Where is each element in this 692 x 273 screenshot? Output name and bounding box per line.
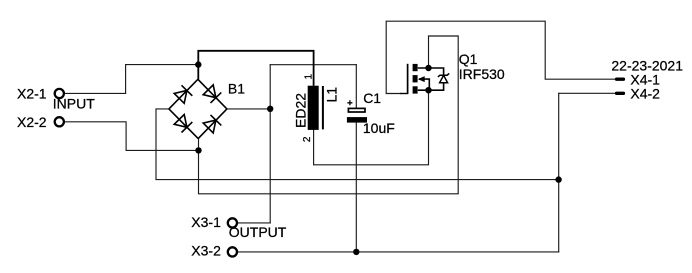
svg-text:OUTPUT: OUTPUT <box>229 224 287 240</box>
Q1 drain bar <box>413 64 418 71</box>
L1 core line <box>322 86 324 129</box>
diode D-topright <box>203 85 216 98</box>
wire X3-1 riser <box>269 65 271 223</box>
terminal X3-1 <box>228 218 237 227</box>
terminal X3-2 <box>228 247 237 256</box>
node drain junction dot <box>425 65 431 71</box>
svg-text:B1: B1 <box>228 81 245 97</box>
L1 winding bar <box>308 86 319 130</box>
terminal X2-2 <box>55 117 64 126</box>
mosfet Q1 <box>400 64 449 94</box>
bridge edge top-left <box>169 79 198 109</box>
terminal X2-1 <box>55 89 64 98</box>
wire bridge right stub <box>227 108 270 110</box>
bridge edge bottom-right <box>198 109 227 139</box>
svg-text:X2-1: X2-1 <box>17 86 47 102</box>
wire thick rail bridge top to L1 pin 1 <box>198 51 313 86</box>
Q1 body arrow head <box>418 76 425 82</box>
svg-text:L1: L1 <box>323 87 339 103</box>
inductor L1 <box>308 86 323 130</box>
Q1 body bar <box>413 75 418 82</box>
wire right vertical X4-2 net <box>558 93 560 252</box>
terminal pad X4-1 <box>615 78 625 81</box>
C1 bottom plate <box>347 117 367 123</box>
svg-text:INPUT: INPUT <box>53 95 95 111</box>
svg-text:1: 1 <box>304 74 315 80</box>
node E junction dot <box>353 249 359 255</box>
bridge edge top-right <box>198 79 227 109</box>
svg-text:X3-1: X3-1 <box>191 214 221 230</box>
Q1 source bar <box>413 86 418 93</box>
Q1 gate lead <box>400 93 408 95</box>
wire gate to X4-1 <box>386 21 615 93</box>
diode D-bottomleft <box>174 115 187 128</box>
Q1 body diode triangle <box>440 75 448 83</box>
svg-text:X2-2: X2-2 <box>17 114 47 130</box>
wire bridge left to node D <box>156 109 559 180</box>
wire C1 bottom lead <box>355 123 357 252</box>
wire bridge bottom to Q1 drain loop <box>199 36 459 194</box>
bridge rectifier B1 <box>169 79 227 138</box>
C1 top plate <box>348 108 365 112</box>
svg-text:X3-2: X3-2 <box>191 243 221 259</box>
node A junction dot <box>195 61 201 67</box>
Q1 drain lead <box>418 68 444 75</box>
wire L1 pin2 to Q1 source <box>314 90 429 165</box>
svg-text:C1: C1 <box>363 90 381 106</box>
wire X4-2 feed <box>559 92 616 94</box>
diode D-topleft <box>174 91 187 104</box>
Q1 gate plate <box>407 64 409 94</box>
Q1 body diode cathode bar <box>438 73 449 77</box>
node D junction dot <box>555 176 561 182</box>
terminal pad X4-2 <box>615 92 625 95</box>
Q1 source lead <box>418 83 444 90</box>
svg-text:2: 2 <box>302 136 313 142</box>
wire node C to C1 <box>270 64 356 66</box>
node source junction dot <box>425 87 431 93</box>
bridge edge bottom-left <box>169 109 198 139</box>
svg-text:X4-2: X4-2 <box>630 86 660 102</box>
capacitor C1 <box>347 100 367 122</box>
node C junction dot <box>267 106 273 112</box>
svg-text:Q1: Q1 <box>459 51 478 67</box>
node B junction dot <box>195 147 201 153</box>
svg-text:10uF: 10uF <box>363 120 395 136</box>
wire X2-2 to node B <box>65 122 199 151</box>
Q1 body arrow line <box>419 79 429 90</box>
C1 plus sign <box>347 100 352 105</box>
svg-text:ED22: ED22 <box>292 93 308 128</box>
diode D-bottomright <box>203 120 216 133</box>
wire X3-1 <box>238 222 270 224</box>
svg-text:IRF530: IRF530 <box>459 66 505 82</box>
wire C1 top lead <box>355 65 357 108</box>
wire X2-1 to node A <box>65 65 198 94</box>
wire bottom rail <box>238 251 559 253</box>
